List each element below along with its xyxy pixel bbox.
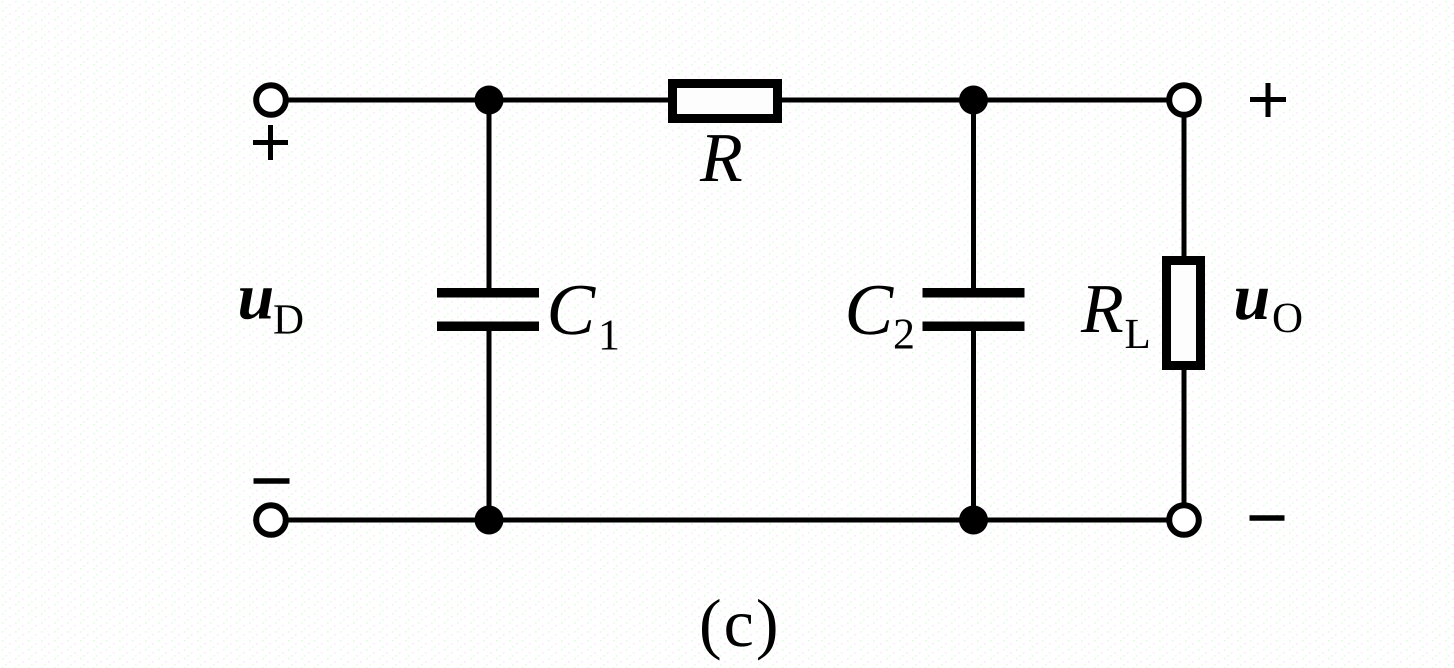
svg-text:D: D — [273, 297, 304, 344]
wire bottom rail — [285, 518, 1184, 523]
svg-text:2: 2 — [893, 310, 915, 359]
svg-text:1: 1 — [598, 311, 620, 360]
svg-text:O: O — [1272, 295, 1303, 342]
terminal output + — [1169, 85, 1199, 115]
node junction bottom-left — [475, 506, 504, 535]
node junction top-right — [959, 86, 988, 115]
plus sign input — [253, 125, 288, 160]
plus sign output — [1250, 83, 1286, 117]
svg-text:C: C — [547, 269, 597, 350]
terminal output - — [1169, 505, 1199, 535]
svg-text:u: u — [1234, 261, 1271, 334]
svg-text:R: R — [699, 120, 743, 197]
wire RL branch — [1182, 100, 1187, 520]
terminal input - — [256, 505, 286, 535]
wire C1 branch — [487, 100, 492, 290]
node junction top-left — [475, 86, 504, 115]
minus sign output — [1250, 515, 1285, 521]
node junction bottom-right — [959, 506, 988, 535]
wire top rail — [285, 98, 1184, 103]
resistor RL — [1167, 261, 1201, 366]
terminal input + — [256, 85, 286, 115]
svg-text:R: R — [1080, 271, 1124, 348]
wire C2 branch — [971, 100, 976, 290]
svg-text:(c): (c) — [699, 585, 780, 661]
svg-text:u: u — [238, 261, 275, 334]
capacitor C2 — [923, 288, 1025, 331]
resistor R — [673, 84, 778, 119]
minus sign input — [254, 478, 290, 484]
svg-text:L: L — [1125, 311, 1151, 358]
svg-text:C: C — [845, 269, 895, 350]
capacitor C1 — [437, 288, 539, 331]
